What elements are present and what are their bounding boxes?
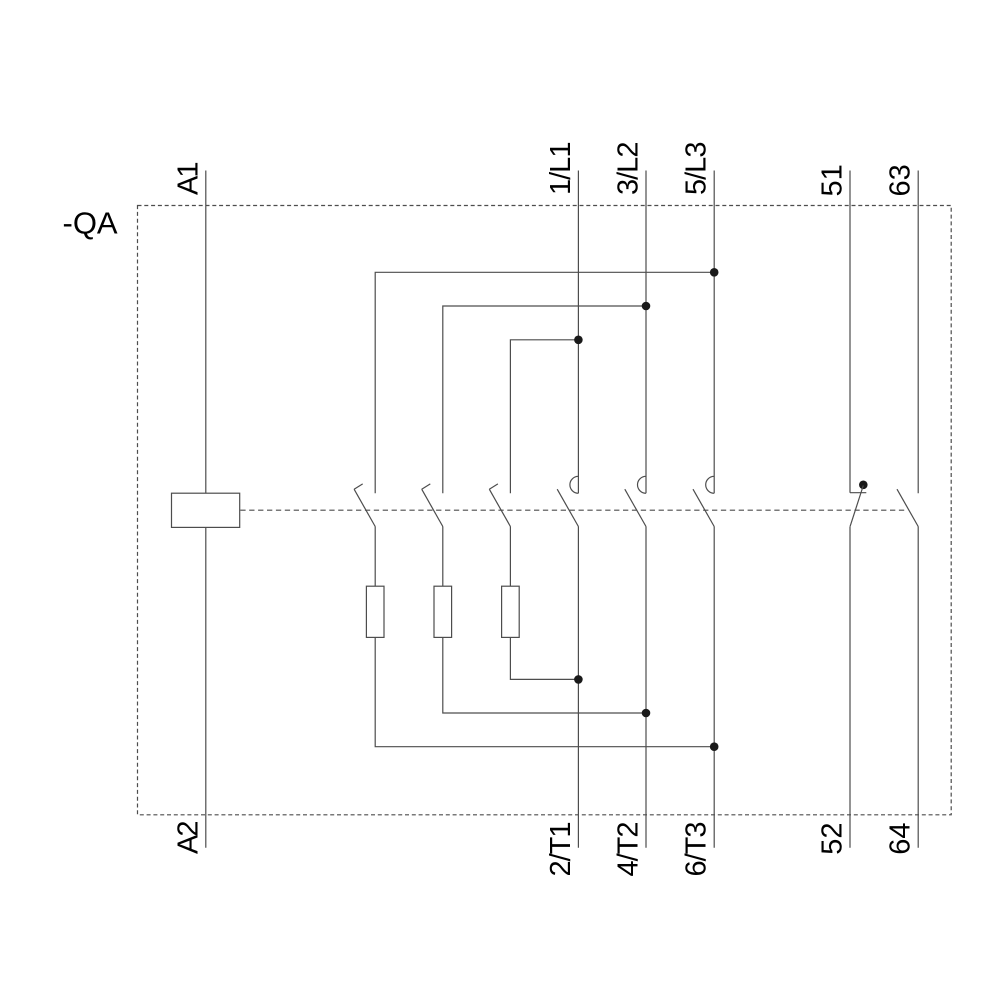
bypass contact 2 blade	[422, 489, 443, 526]
main contact pole 1 blade	[557, 489, 578, 526]
main contact pole 2 arc	[638, 476, 647, 493]
branch 2 lower hook wire (to 4/T2)	[443, 637, 646, 713]
wire 5/L3 upper	[713, 171, 715, 494]
NO aux contact 63-64 blade	[897, 489, 918, 526]
svg-text:4/T2: 4/T2	[613, 823, 645, 877]
wire contact3 to resistor3	[509, 527, 511, 587]
branch 2 upper hook wire (to 3/L2)	[443, 306, 646, 493]
node dot on 4/T2	[642, 709, 651, 718]
svg-text:52: 52	[817, 823, 849, 855]
resistor R1	[366, 586, 384, 637]
main contact pole 2 blade	[625, 489, 646, 526]
wire 4/T2 lower	[645, 527, 647, 848]
dashed enclosure border	[138, 206, 952, 815]
mechanical linkage dashed line	[240, 509, 907, 511]
svg-text:2/T1: 2/T1	[545, 823, 577, 877]
NC aux contact blade	[850, 486, 863, 527]
node dot on 1/L1	[574, 336, 583, 345]
wire 3/L2 upper	[645, 171, 647, 494]
branch 3 lower hook wire (to 2/T1)	[510, 637, 578, 679]
bypass contact 1 tick	[354, 484, 363, 489]
wire 51 upper	[849, 171, 851, 493]
main contact pole 1 arc	[570, 476, 578, 493]
wire 6/T3 lower	[713, 527, 715, 848]
svg-text:51: 51	[817, 164, 849, 196]
svg-text:63: 63	[885, 164, 917, 196]
wire 1/L1 upper	[577, 171, 579, 494]
resistor R3	[502, 586, 520, 637]
branch 1 lower hook wire (to 6/T3)	[375, 637, 714, 746]
node dot on 3/L2	[642, 302, 651, 311]
wire A1 to coil	[205, 171, 207, 494]
wire contact2 to resistor2	[442, 527, 444, 587]
wire coil to A2	[205, 527, 207, 847]
node dot on 6/T3	[710, 742, 719, 751]
bypass contact 1 blade	[354, 489, 375, 526]
NC aux contact 51-52 bar	[850, 492, 866, 494]
node dot on 2/T1	[574, 675, 583, 684]
main contact pole 3 arc	[706, 476, 715, 493]
coil K (rectangle)	[172, 493, 240, 527]
svg-text:-QA: -QA	[63, 205, 118, 240]
wire 63 upper	[917, 171, 919, 494]
wire 2/T1 lower	[577, 527, 579, 848]
branch 3 upper hook wire (to 1/L1)	[510, 340, 578, 493]
wire 64 lower	[917, 527, 919, 848]
svg-text:3/L2: 3/L2	[613, 143, 645, 195]
bypass contact 2 tick	[422, 484, 431, 489]
bypass contact 3 tick	[489, 484, 498, 489]
node dot on 5/L3	[710, 268, 719, 277]
resistor R2	[434, 586, 452, 637]
NC aux contact pivot dot	[859, 481, 868, 490]
svg-text:5/L3: 5/L3	[681, 143, 713, 195]
wire 52 lower	[849, 527, 851, 848]
svg-text:6/T3: 6/T3	[681, 823, 713, 877]
wire contact1 to resistor1	[374, 527, 376, 587]
main contact pole 3 blade	[693, 489, 714, 526]
svg-text:A1: A1	[172, 163, 204, 195]
svg-text:1/L1: 1/L1	[545, 143, 577, 195]
bypass contact 3 blade	[489, 489, 510, 526]
svg-text:64: 64	[885, 823, 917, 855]
branch 1 upper hook wire (to 5/L3)	[375, 272, 714, 493]
svg-text:A2: A2	[172, 822, 204, 854]
